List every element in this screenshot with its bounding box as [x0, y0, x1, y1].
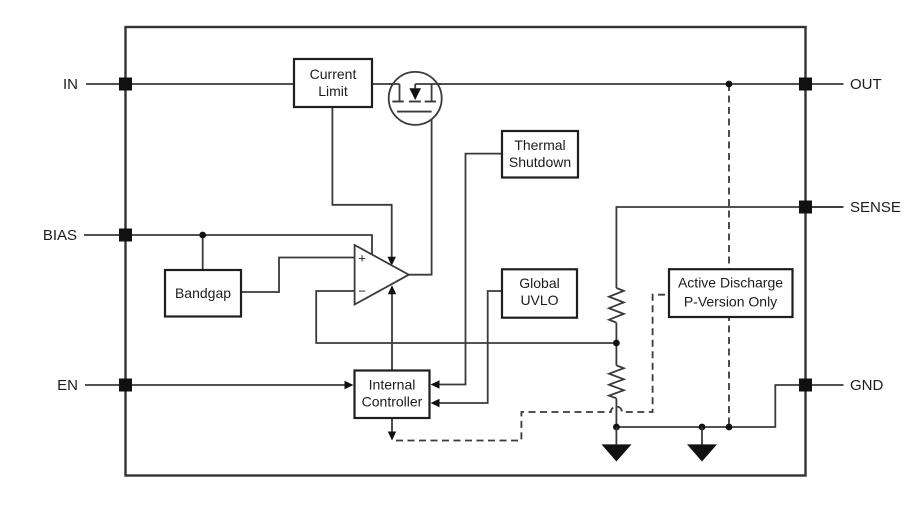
wire: GND pin stub outside [812, 384, 844, 386]
wire: feedback from divider to op-amp - input [316, 291, 616, 343]
svg-text:Controller: Controller [362, 394, 423, 410]
arrowhead: EN into Internal Controller [345, 381, 354, 389]
wire: Global UVLO to Internal Controller [438, 291, 502, 403]
svg-text:SENSE: SENSE [850, 199, 901, 216]
svg-text:EN: EN [57, 377, 78, 394]
svg-text:Global: Global [519, 275, 559, 291]
wire: Internal Controller bottom lead [391, 418, 393, 434]
svg-text:Thermal: Thermal [514, 137, 565, 153]
svg-text:GND: GND [850, 377, 884, 394]
block: Active Discharge P-Version Only [669, 269, 793, 317]
wire: BIAS line [84, 235, 372, 255]
ground symbol 2 [687, 427, 717, 462]
ground symbol 1 [602, 427, 632, 462]
block: Bandgap [165, 270, 241, 317]
wire: dashed OUT discharge line [728, 84, 730, 427]
arrowhead: controller down to discharge control [388, 432, 396, 441]
arrowhead: global UVLO into controller [431, 399, 440, 407]
junction dot: bus/ground2 [699, 424, 706, 431]
svg-text:IN: IN [63, 76, 78, 93]
svg-text:BIAS: BIAS [43, 227, 77, 244]
svg-text:−: − [358, 284, 366, 299]
pin SENSE [799, 199, 901, 216]
arrowhead: controller into op-amp bottom [388, 285, 396, 294]
junction dot: BIAS/Bandgap tap [199, 232, 206, 239]
wire: Internal Controller up to op-amp bottom [391, 293, 393, 371]
resistor R1 upper divider [609, 288, 624, 323]
junction dot: OUT/discharge tap [726, 81, 733, 88]
wire: IN line from pin to Current Limit [86, 83, 294, 85]
svg-text:+: + [358, 251, 366, 266]
wire: op-amp output to MOSFET gate [409, 112, 432, 275]
resistor R2 lower divider [609, 365, 624, 398]
IC boundary frame [126, 27, 806, 476]
arrowhead: thermal shutdown into controller [431, 380, 440, 388]
block: Current Limit [294, 59, 372, 107]
junction dot: divider to ground bus [613, 424, 620, 431]
wire: EN line into Internal Controller [85, 384, 347, 386]
svg-text:OUT: OUT [850, 76, 882, 93]
wire: Current Limit to MOSFET source [372, 83, 400, 85]
pin IN [63, 76, 132, 93]
arrowhead: current limit into op-amp top [388, 257, 396, 266]
junction dot: bus/discharge line [726, 424, 733, 431]
svg-text:Current: Current [310, 66, 357, 82]
svg-text:P-Version Only: P-Version Only [684, 294, 777, 310]
wire: BIAS tap down to Bandgap [202, 235, 204, 270]
transistor Q1 pass MOSFET [389, 72, 442, 125]
wire: SENSE line to divider top [616, 207, 843, 288]
pin GND [799, 377, 884, 394]
wire: ground bus [616, 385, 799, 427]
junction dot: feedback tap [613, 340, 620, 347]
pin EN [57, 377, 132, 394]
svg-text:Internal: Internal [369, 377, 416, 393]
svg-text:Limit: Limit [318, 83, 348, 99]
pin OUT [799, 76, 882, 93]
wire: divider middle segment [615, 323, 617, 366]
block: Global UVLO [502, 269, 577, 317]
wire: Thermal Shutdown to Internal Controller [438, 154, 502, 385]
wire: SENSE pin stub outside [812, 206, 844, 208]
svg-text:Bandgap: Bandgap [175, 285, 231, 301]
op-amp U1 error amplifier [355, 245, 409, 305]
svg-text:Shutdown: Shutdown [509, 154, 571, 170]
wire: MOSFET drain to OUT pin [415, 83, 843, 85]
wire: Current Limit output down to op-amp [332, 107, 391, 259]
svg-text:UVLO: UVLO [520, 292, 558, 308]
wire: divider bottom lead [615, 398, 617, 427]
block: Thermal Shutdown [502, 131, 578, 178]
wire: dashed discharge control path [396, 295, 669, 441]
pin BIAS [43, 227, 132, 244]
svg-text:Active Discharge: Active Discharge [678, 275, 783, 291]
wire: Bandgap output to op-amp + input [241, 258, 355, 293]
block: Internal Controller [355, 371, 430, 419]
